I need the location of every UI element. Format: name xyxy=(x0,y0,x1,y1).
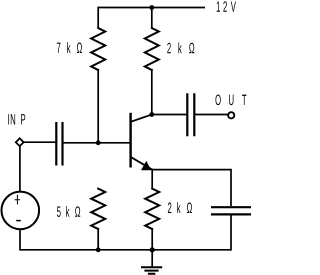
label R4 value 2 k ohm xyxy=(168,202,192,213)
wire: +12V top rail xyxy=(98,8,205,29)
resistor R4 2 kOhm (emitter) xyxy=(145,189,159,229)
output terminal circle xyxy=(228,112,234,118)
wire: base node to transistor base xyxy=(98,142,129,144)
resistor R3 5 kOhm (base bias) xyxy=(91,189,105,229)
transistor Q1 base bar xyxy=(129,114,131,166)
wire: C2 to output terminal xyxy=(195,114,227,116)
wire: R4 bottom to ground rail xyxy=(151,229,153,250)
capacitor C2 (output coupling) xyxy=(187,93,194,136)
junction dot: R4 at ground rail xyxy=(150,247,155,252)
wire: R3 bottom to ground rail xyxy=(97,229,99,250)
resistor R2 2 kOhm (collector load) xyxy=(145,28,159,70)
junction dot: base node xyxy=(96,140,101,145)
ground symbol xyxy=(141,267,162,274)
wire: emitter node down to R4 xyxy=(151,170,153,189)
label R3 value 5 k ohm xyxy=(57,206,80,217)
wire: C1 to base node xyxy=(64,142,99,144)
wire: collector node to C2 xyxy=(152,114,186,116)
input terminal diamond xyxy=(16,138,24,146)
transistor Q1 emitter stroke xyxy=(131,157,153,170)
wire: R1 bottom to base node xyxy=(97,70,99,143)
label R2 value 2 k ohm xyxy=(167,42,194,53)
label 12V xyxy=(217,1,236,11)
source V1 plus sign xyxy=(15,195,19,204)
source V1 minus sign xyxy=(17,220,20,222)
junction dot: collector node xyxy=(149,112,154,117)
source V1 circle xyxy=(2,192,40,230)
junction dot: R3 at ground rail xyxy=(96,247,101,252)
wire: rail down to R2 top xyxy=(151,8,153,29)
wire: emitter node top rail to bypass branch xyxy=(152,170,231,206)
wire: bottom ground rail xyxy=(20,216,231,250)
label OUT xyxy=(215,95,246,106)
transistor Q1 collector stroke xyxy=(131,115,152,122)
label IN P xyxy=(8,114,25,124)
ground stub xyxy=(151,250,153,267)
wire: R2 bottom to collector node xyxy=(151,70,153,115)
wire: input terminal down to source V1 xyxy=(19,146,21,192)
resistor R1 7 kOhm xyxy=(91,28,105,70)
transistor Q1 emitter arrowhead xyxy=(141,161,151,170)
capacitor C1 (input coupling) xyxy=(56,122,62,166)
junction dot: rail to R2 xyxy=(149,5,154,10)
capacitor C3 (emitter bypass) xyxy=(211,207,251,214)
label R1 value 7 k ohm xyxy=(57,42,82,53)
wire: input terminal to C1 xyxy=(24,141,56,143)
